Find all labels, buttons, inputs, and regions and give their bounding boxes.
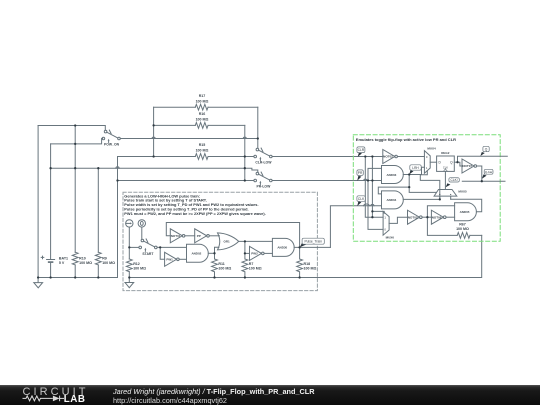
wire Q net to right stub xyxy=(458,156,508,162)
svg-text:5 V: 5 V xyxy=(59,261,65,265)
resistor R11 xyxy=(212,253,218,277)
wire NOT06 out to AND05 in2 xyxy=(446,216,455,218)
OR gate OR1 xyxy=(218,233,239,250)
wire MUX6 out to NOT05 xyxy=(389,217,407,223)
wire R16 right vertical x=244.8 xyxy=(244,125,246,180)
dashed box pulse generator xyxy=(123,192,317,290)
svg-text:CLR-LOW: CLR-LOW xyxy=(255,160,272,164)
svg-text:100 MΩ: 100 MΩ xyxy=(456,227,469,231)
wire MUX4 out to REG2 D xyxy=(430,161,436,163)
wire PW2 out to AND30 in2 xyxy=(264,252,272,254)
junction dots pulse box xyxy=(128,246,130,248)
dashed box toggle flip-flop (green) xyxy=(353,135,500,242)
wire AND02 out xyxy=(208,252,214,254)
wire R17 right vertical x=257.8 to CLR-LOW top xyxy=(257,107,259,148)
wire NOT02 out to MUX4 in0 xyxy=(397,156,424,158)
svg-text:MUX6: MUX6 xyxy=(386,236,395,240)
wire AND05 in1 from NOT05 junction xyxy=(427,206,454,217)
inverter PW1 xyxy=(165,252,177,266)
svg-text:100 MΩ: 100 MΩ xyxy=(196,148,209,152)
multiplexer MUX5 xyxy=(434,190,457,197)
svg-text:MUX5: MUX5 xyxy=(458,189,467,193)
wire V1 to START row / R12 xyxy=(128,227,130,259)
wire MUX6 select xyxy=(372,211,384,213)
svg-text:NOT01: NOT01 xyxy=(171,234,181,238)
flag CLK! xyxy=(446,183,451,187)
wire R67 row y=235.4 xyxy=(427,217,481,235)
wire PR net to green box y=180.5 xyxy=(272,180,381,182)
wire V0 to START top throw xyxy=(141,227,143,239)
flag Q-bar xyxy=(482,174,487,178)
wire left rail x=38.1 xyxy=(37,126,39,278)
svg-text:PR: PR xyxy=(358,171,363,175)
svg-text:Q-bar: Q-bar xyxy=(485,170,493,174)
inverter NOT01 xyxy=(170,229,182,243)
svg-text:START: START xyxy=(142,252,154,256)
wire bus A from CLR down to MUX6 in1 xyxy=(365,157,383,218)
svg-text:AND03: AND03 xyxy=(386,173,396,177)
wire PW1 out to AND02 in2 xyxy=(179,258,186,260)
wire LRH net down and to AND04 in1 xyxy=(378,175,409,194)
wire AND05 out loop to MUX5 xyxy=(451,199,482,212)
svg-text:BAT1: BAT1 xyxy=(59,256,68,260)
multiplexer MUX6 xyxy=(383,212,389,236)
wire PR-LOW left row y=180.5 xyxy=(118,180,254,182)
wire REG2 CLK to MUX5 out xyxy=(444,171,446,189)
switch PR-LOW xyxy=(254,172,272,185)
svg-text:100 MΩ: 100 MΩ xyxy=(133,266,146,270)
wire tap to PW2 xyxy=(245,252,250,254)
svg-text:100 MΩ: 100 MΩ xyxy=(249,266,262,270)
svg-text:Pulse_Train: Pulse_Train xyxy=(304,240,322,244)
wire REG2 Q out xyxy=(454,161,457,163)
svg-text:NOT02: NOT02 xyxy=(383,155,393,159)
wire NOT05 out to NOT06 xyxy=(422,216,431,218)
wire bus C from CLR down xyxy=(371,157,373,218)
wire MUX4 select loop xyxy=(420,171,440,200)
inverter PP xyxy=(195,229,207,243)
svg-text:R18: R18 xyxy=(304,262,311,266)
svg-text:CLK: CLK xyxy=(358,197,365,201)
wire POW_ON common to switches y=138 xyxy=(120,138,256,140)
svg-text:R67: R67 xyxy=(459,222,466,226)
svg-text:PR-LOW: PR-LOW xyxy=(257,184,272,188)
wire AND30 out xyxy=(294,246,330,248)
wire PP to OR1 upper input xyxy=(209,235,219,237)
resistor R17 row y=107.2 xyxy=(154,106,258,108)
svg-text:AND30: AND30 xyxy=(277,246,287,250)
wire R17 left vertical x=153.6 xyxy=(153,107,155,156)
wire bus B AND03-in1 / PR / MUX6 in0 xyxy=(368,168,383,229)
wire branch to PW1 xyxy=(160,247,164,259)
AND gate AND03 xyxy=(382,166,404,184)
switch POW_ON xyxy=(102,130,120,143)
svg-text:100 MΩ: 100 MΩ xyxy=(196,118,209,122)
svg-text:NOT05: NOT05 xyxy=(408,215,418,219)
svg-text:R17: R17 xyxy=(199,94,206,98)
svg-text:R12: R12 xyxy=(133,262,140,266)
battery BAT1 xyxy=(41,256,54,259)
wire NOT01 to PP xyxy=(185,235,195,237)
source V0 (logic 0) xyxy=(138,220,145,227)
CircuitLab logo xyxy=(22,385,92,404)
svg-text:PW2: PW2 xyxy=(251,252,258,256)
inverter NOT02 xyxy=(383,150,395,164)
wire riser x=117.5 to R15 row xyxy=(117,157,119,278)
junction dots flip-flop box xyxy=(364,155,366,157)
flag Pulse_Train xyxy=(300,242,306,247)
svg-text:PW1 must = PW2, and PP must be: PW1 must = PW2, and PP must be >= 2XPW (… xyxy=(124,211,265,216)
resistor R12 xyxy=(126,259,132,272)
flag CLK xyxy=(357,201,361,206)
svg-text:R7: R7 xyxy=(249,262,254,266)
wire jog to OR1 lower input xyxy=(215,247,219,253)
wire pulse rail y=277.5 up to R67 xyxy=(129,235,481,277)
svg-text:NOT07: NOT07 xyxy=(462,164,472,168)
wire AND04 out to MUX5 left input xyxy=(403,196,440,199)
resistor R18 xyxy=(297,247,303,277)
junction dots power section xyxy=(74,124,76,126)
AND gate AND30 xyxy=(272,238,294,256)
resistor R9 xyxy=(95,252,101,265)
flag LRH xyxy=(409,170,413,174)
svg-text:CLK: CLK xyxy=(443,165,448,169)
wire AND03 out to MUX4 in1 xyxy=(403,167,424,174)
AND gate AND04 xyxy=(382,191,404,209)
resistor R7 xyxy=(242,241,248,277)
svg-text:100 MΩ: 100 MΩ xyxy=(79,261,92,265)
wire hops xyxy=(116,137,374,206)
inverter NOT06 xyxy=(431,210,443,224)
svg-text:AND02: AND02 xyxy=(191,252,201,256)
svg-text:Emulates toggle flip-flop with: Emulates toggle flip-flop with active lo… xyxy=(356,137,456,142)
svg-text:R9: R9 xyxy=(102,256,107,260)
wire START common to AND02 in1 xyxy=(157,246,186,248)
resistor R10 xyxy=(72,252,78,265)
switch CLR-LOW xyxy=(254,148,272,161)
svg-text:PW1: PW1 xyxy=(166,258,173,262)
wire OR1 out to AND30 xyxy=(239,240,273,242)
wire mid row y=168.2 with jog to PR-LOW top xyxy=(51,168,258,172)
wire top supply row y=125.5 xyxy=(38,126,105,131)
wire R12 to rail xyxy=(128,272,130,278)
wire START left throw xyxy=(129,246,138,248)
register REG2 xyxy=(437,156,455,171)
svg-text:100 MΩ: 100 MΩ xyxy=(196,100,209,104)
wire battery ground rail y=277.5 xyxy=(38,277,117,279)
AND gate AND02 xyxy=(187,244,209,262)
wire NOT07 out to Q-bar stub xyxy=(462,166,505,181)
multiplexer MUX4 xyxy=(424,151,430,174)
svg-text:R16: R16 xyxy=(199,112,206,116)
svg-text:R10: R10 xyxy=(79,256,86,260)
svg-text:AND04: AND04 xyxy=(386,198,396,202)
resistor R16 row y=125.4 xyxy=(154,124,245,126)
note text pulse generator xyxy=(124,193,265,216)
wire battery plus row y=143.9 xyxy=(51,139,103,144)
inverter PW2 xyxy=(250,246,262,260)
svg-text:CLK!: CLK! xyxy=(451,178,458,182)
svg-text:Q: Q xyxy=(485,148,488,152)
wire CLR net to green box y=156.5 xyxy=(272,156,383,158)
wire CLK riser to green box xyxy=(330,206,381,248)
resistor R15 row y=156.5 xyxy=(118,156,254,158)
svg-text:OR1: OR1 xyxy=(224,240,231,244)
svg-text:LAB: LAB xyxy=(64,394,86,404)
svg-text:POW_ON: POW_ON xyxy=(104,143,120,147)
flag Q xyxy=(480,152,484,156)
wire battery vertical x=50.6 xyxy=(50,144,52,278)
svg-text:REG2: REG2 xyxy=(441,151,450,155)
ground (battery) xyxy=(34,278,43,288)
inverter NOT07 xyxy=(462,159,474,173)
flag PR xyxy=(357,176,361,181)
inverter NOT05 xyxy=(408,210,420,224)
AND gate AND05 xyxy=(455,203,477,221)
svg-text:MUX4: MUX4 xyxy=(427,146,436,150)
source V1 (logic 1) xyxy=(126,220,133,227)
svg-text:LRH: LRH xyxy=(412,166,419,170)
wire R9 branch x=98.3 xyxy=(97,168,99,277)
svg-text:PP: PP xyxy=(197,234,201,238)
wire MUX5 right input stub xyxy=(450,196,452,199)
svg-text:100 MΩ: 100 MΩ xyxy=(304,266,317,270)
resistor R67 xyxy=(457,233,470,239)
svg-text:R11: R11 xyxy=(218,262,224,266)
flag CLR xyxy=(358,153,362,157)
svg-text:100 MΩ: 100 MΩ xyxy=(218,266,231,270)
wire R10 branch x=75.2 xyxy=(74,126,76,278)
switch START xyxy=(139,239,157,252)
svg-text:NOT06: NOT06 xyxy=(432,215,442,219)
ground (pulse box) xyxy=(125,278,134,288)
wire Q to NOT07 xyxy=(458,162,463,166)
wire LRH net to MUX5 select xyxy=(409,187,436,192)
svg-text:AND05: AND05 xyxy=(460,210,470,214)
wire feedback top loop to NOT01 xyxy=(166,223,299,248)
svg-text:CLR: CLR xyxy=(358,148,365,152)
svg-text:100 MΩ: 100 MΩ xyxy=(102,261,115,265)
svg-text:R15: R15 xyxy=(199,143,206,147)
